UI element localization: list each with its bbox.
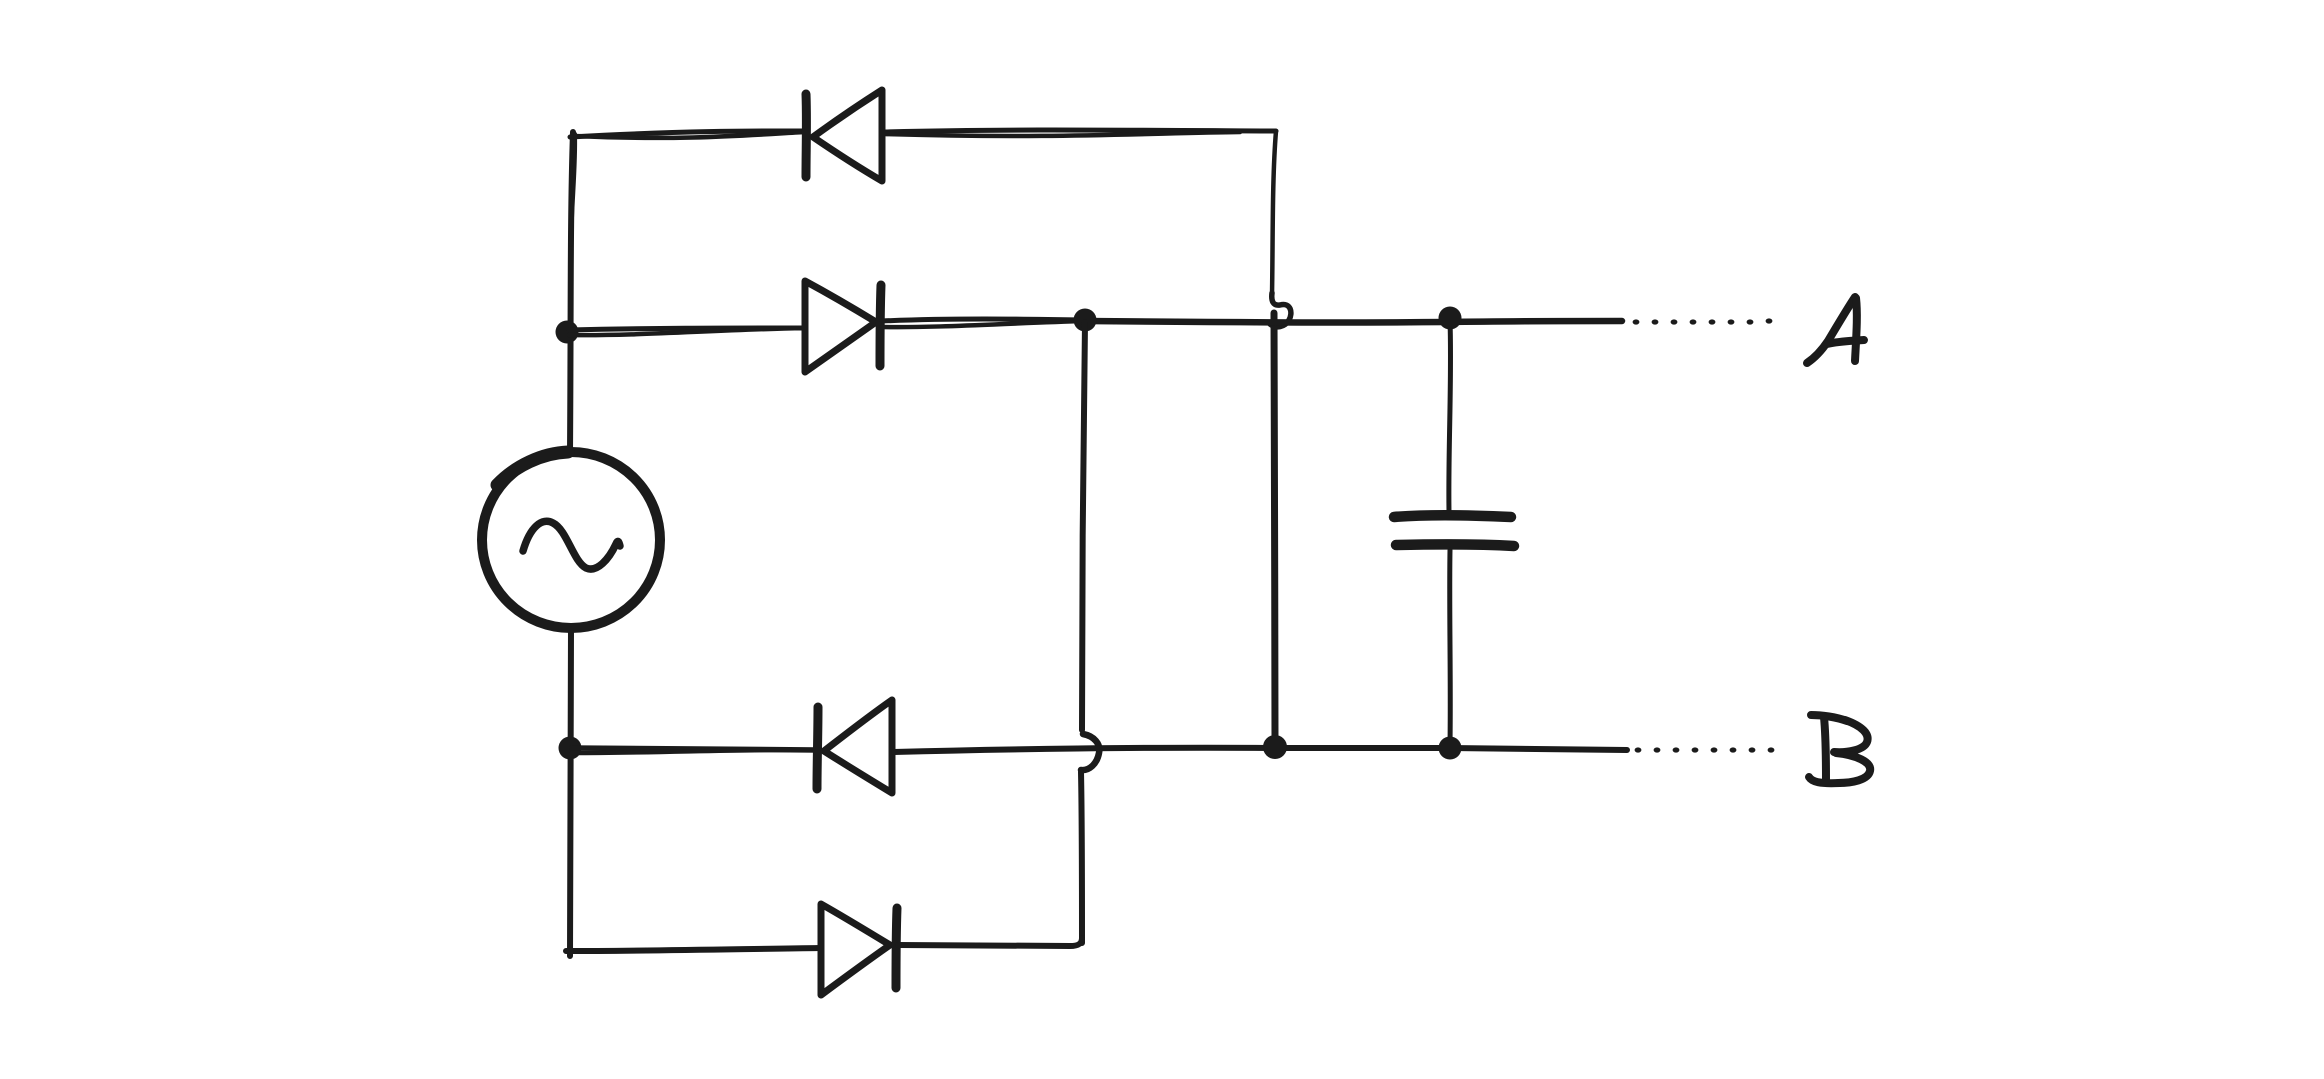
wire top rail right segment [884, 130, 1276, 132]
diode D3 [817, 700, 892, 793]
node junction dot capacitor top on A rail [1439, 307, 1462, 330]
diode D2 [805, 281, 881, 372]
wire bridge vertical from B-line to bottom branch [1081, 772, 1082, 943]
wire right vertical from A-line to node B [1274, 313, 1275, 742]
wire A rail dotted extension [1633, 318, 1773, 324]
node label B [1809, 715, 1870, 783]
AC source V1 [482, 452, 660, 628]
wire top rail left segment [570, 131, 806, 137]
wire left vertical from AC source to node B and bottom branch [570, 629, 571, 956]
node junction dot A rail at AC top [556, 321, 579, 344]
wire B rail right segment [894, 748, 1627, 752]
wire A rail left segment [569, 328, 805, 330]
wire B rail dotted extension [1635, 747, 1775, 752]
capacitor C1 [1394, 320, 1514, 744]
node junction dot A rail / bridge vertical [1074, 309, 1097, 332]
wire hop over A rail [1270, 293, 1291, 327]
wire left vertical from top rail to AC source [570, 132, 573, 452]
diode D1 [806, 90, 882, 181]
node junction dot capacitor bottom on B rail [1439, 737, 1462, 760]
wire bottom branch right segment to bridge vertical [898, 938, 1082, 946]
wire A rail middle segment [882, 319, 1085, 321]
wire hop over B rail [1081, 734, 1099, 770]
wire bottom branch left segment [566, 948, 820, 951]
wire B rail left segment [572, 748, 817, 750]
node junction dot B rail at AC bottom [559, 737, 582, 760]
wire bridge vertical from A rail down to B-line hop [1082, 322, 1085, 730]
node junction dot B rail / right vertical [1263, 735, 1287, 759]
wire right vertical from top rail down to A-line hop [1272, 131, 1276, 295]
node label A [1807, 297, 1864, 363]
diode D4 [821, 904, 897, 995]
